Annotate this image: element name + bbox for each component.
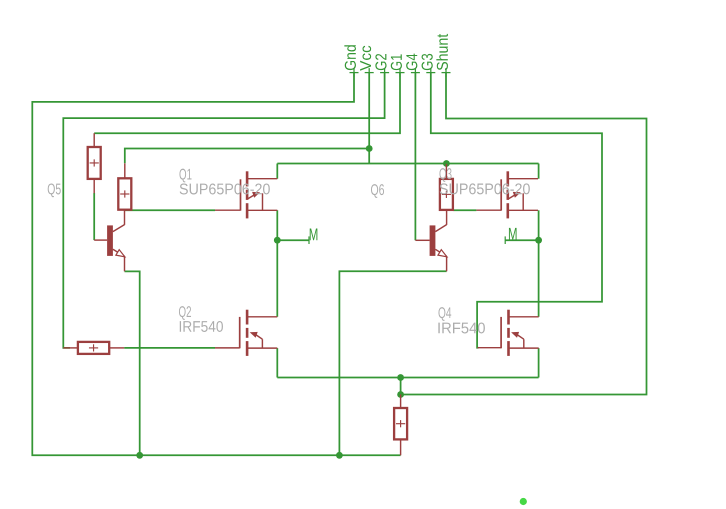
wire R1 bottom to Q5 base: [93, 193, 95, 240]
transistor Q3 (P-MOSFET): [501, 171, 538, 218]
wire shunt top link: [400, 378, 402, 395]
junction Vcc branch: [366, 145, 373, 152]
cursor marker dot: [520, 498, 527, 505]
resistor R5 (shunt): [394, 408, 407, 439]
wire R5 top stub: [400, 395, 402, 409]
pin G2: [375, 54, 389, 77]
transistor Q1 (P-MOSFET): [241, 171, 278, 218]
wire Q2 gate pin: [215, 347, 240, 349]
wire Q6 base pin: [415, 239, 429, 241]
pin G4: [406, 54, 420, 77]
pin G3: [422, 54, 436, 77]
label Q4 value IRF540: [438, 322, 485, 333]
junction Vcc rail / R4: [443, 160, 450, 167]
resistor R4 (Vcc pull-up for Q3 gate): [440, 179, 453, 210]
wire Gnd net: pin down, across top-left, left border down, bottom ground bus: [32, 73, 400, 456]
label Q1: [179, 169, 191, 183]
wire Q5 collector node to Q1 gate: [125, 209, 215, 211]
label Q2 value IRF540: [180, 321, 223, 332]
wire G3 net: pin down, right, down, left, down to Q4 gate: [431, 73, 602, 348]
wire Q3 gate pin: [476, 209, 501, 211]
junction node M right: [535, 237, 542, 244]
wire R2 top stub: [124, 163, 126, 178]
transistor Q2 (N-MOSFET): [240, 310, 278, 356]
wire Vcc rail between Q1 and Q3: [277, 163, 538, 165]
pin Vcc: [360, 46, 374, 77]
wire Q2 source down to source bus: [276, 348, 278, 377]
wire R1 bottom stub: [93, 179, 95, 193]
wire G1 net: pin down, across to R1: [94, 73, 400, 134]
transistor Q4 (N-MOSFET): [501, 310, 539, 356]
label Q1 value SUP65P06-20: [180, 183, 270, 194]
wire Q5 emitter to ground bus: [125, 271, 140, 455]
junction ground bus / Q5 emitter: [136, 452, 143, 459]
wire Q1 gate pin: [215, 209, 241, 211]
label Q3 value SUP65P06-20: [440, 183, 530, 194]
wire node M right stub: [505, 239, 538, 241]
wire Q6 emitter to ground bus: [339, 271, 446, 455]
wire R5 bottom stub: [400, 439, 402, 455]
label M left: [310, 229, 318, 241]
wire R3 right stub: [109, 347, 124, 349]
wire Q3 source to Vcc rail: [538, 164, 540, 179]
resistor R3 (G2 to Q2 gate): [78, 342, 109, 354]
wire R4 bottom to Q3 gate: [454, 209, 477, 211]
wire R2 bottom stub: [124, 209, 126, 212]
wire node M right: Q3 drain down to Q4 drain: [538, 210, 540, 316]
wire R4 bottom stub: [446, 209, 448, 212]
wire Q4 source down to source bus: [538, 348, 540, 377]
junction node M left: [274, 237, 281, 244]
label Q5: [48, 183, 61, 197]
resistor R2 (Vcc pull-up for Q1 gate): [118, 178, 131, 209]
wire source bus between Q2 and Q4: [277, 377, 538, 379]
wire R1 top stub: [93, 133, 95, 147]
label Q2: [179, 306, 191, 320]
transistor Q6 (NPN): [430, 210, 447, 271]
transistor Q5 (NPN): [107, 210, 125, 271]
wire Q5 base pin: [94, 239, 107, 241]
pin M left tick: [308, 236, 310, 244]
junction shunt node: [397, 391, 404, 398]
pin M right tick: [504, 236, 506, 244]
wire R4 top stub: [445, 164, 447, 179]
junction ground bus / Q6 emitter: [336, 452, 343, 459]
label Q4: [438, 307, 451, 321]
pin G1: [391, 54, 405, 77]
resistor R1 (G1 to Q5 base): [88, 147, 101, 179]
wire node M left stub: [277, 239, 309, 241]
wire Vcc pin down to rail: [368, 73, 370, 164]
label M right: [509, 228, 517, 240]
wire R3 to Q2 gate: [124, 347, 215, 349]
wire Q4 gate pin: [478, 347, 502, 349]
wire G4 net: pin down to Q6 base: [414, 73, 416, 241]
wire Vcc branch left to R2: [125, 149, 369, 164]
wire G2 net: pin down, across, left side down to R3: [63, 73, 384, 348]
wire R3 left stub: [63, 347, 78, 349]
pin Shunt: [436, 34, 450, 77]
wire node M left: Q1 drain down to Q2 drain: [276, 210, 278, 316]
pin Gnd: [344, 45, 358, 77]
wire Q1 source to Vcc rail: [276, 164, 278, 179]
junction source bus / shunt: [397, 374, 404, 381]
label Q6: [371, 184, 384, 198]
label Q3: [439, 168, 451, 182]
wire Shunt net: pin down, right, down to shunt resistor top: [401, 73, 647, 395]
